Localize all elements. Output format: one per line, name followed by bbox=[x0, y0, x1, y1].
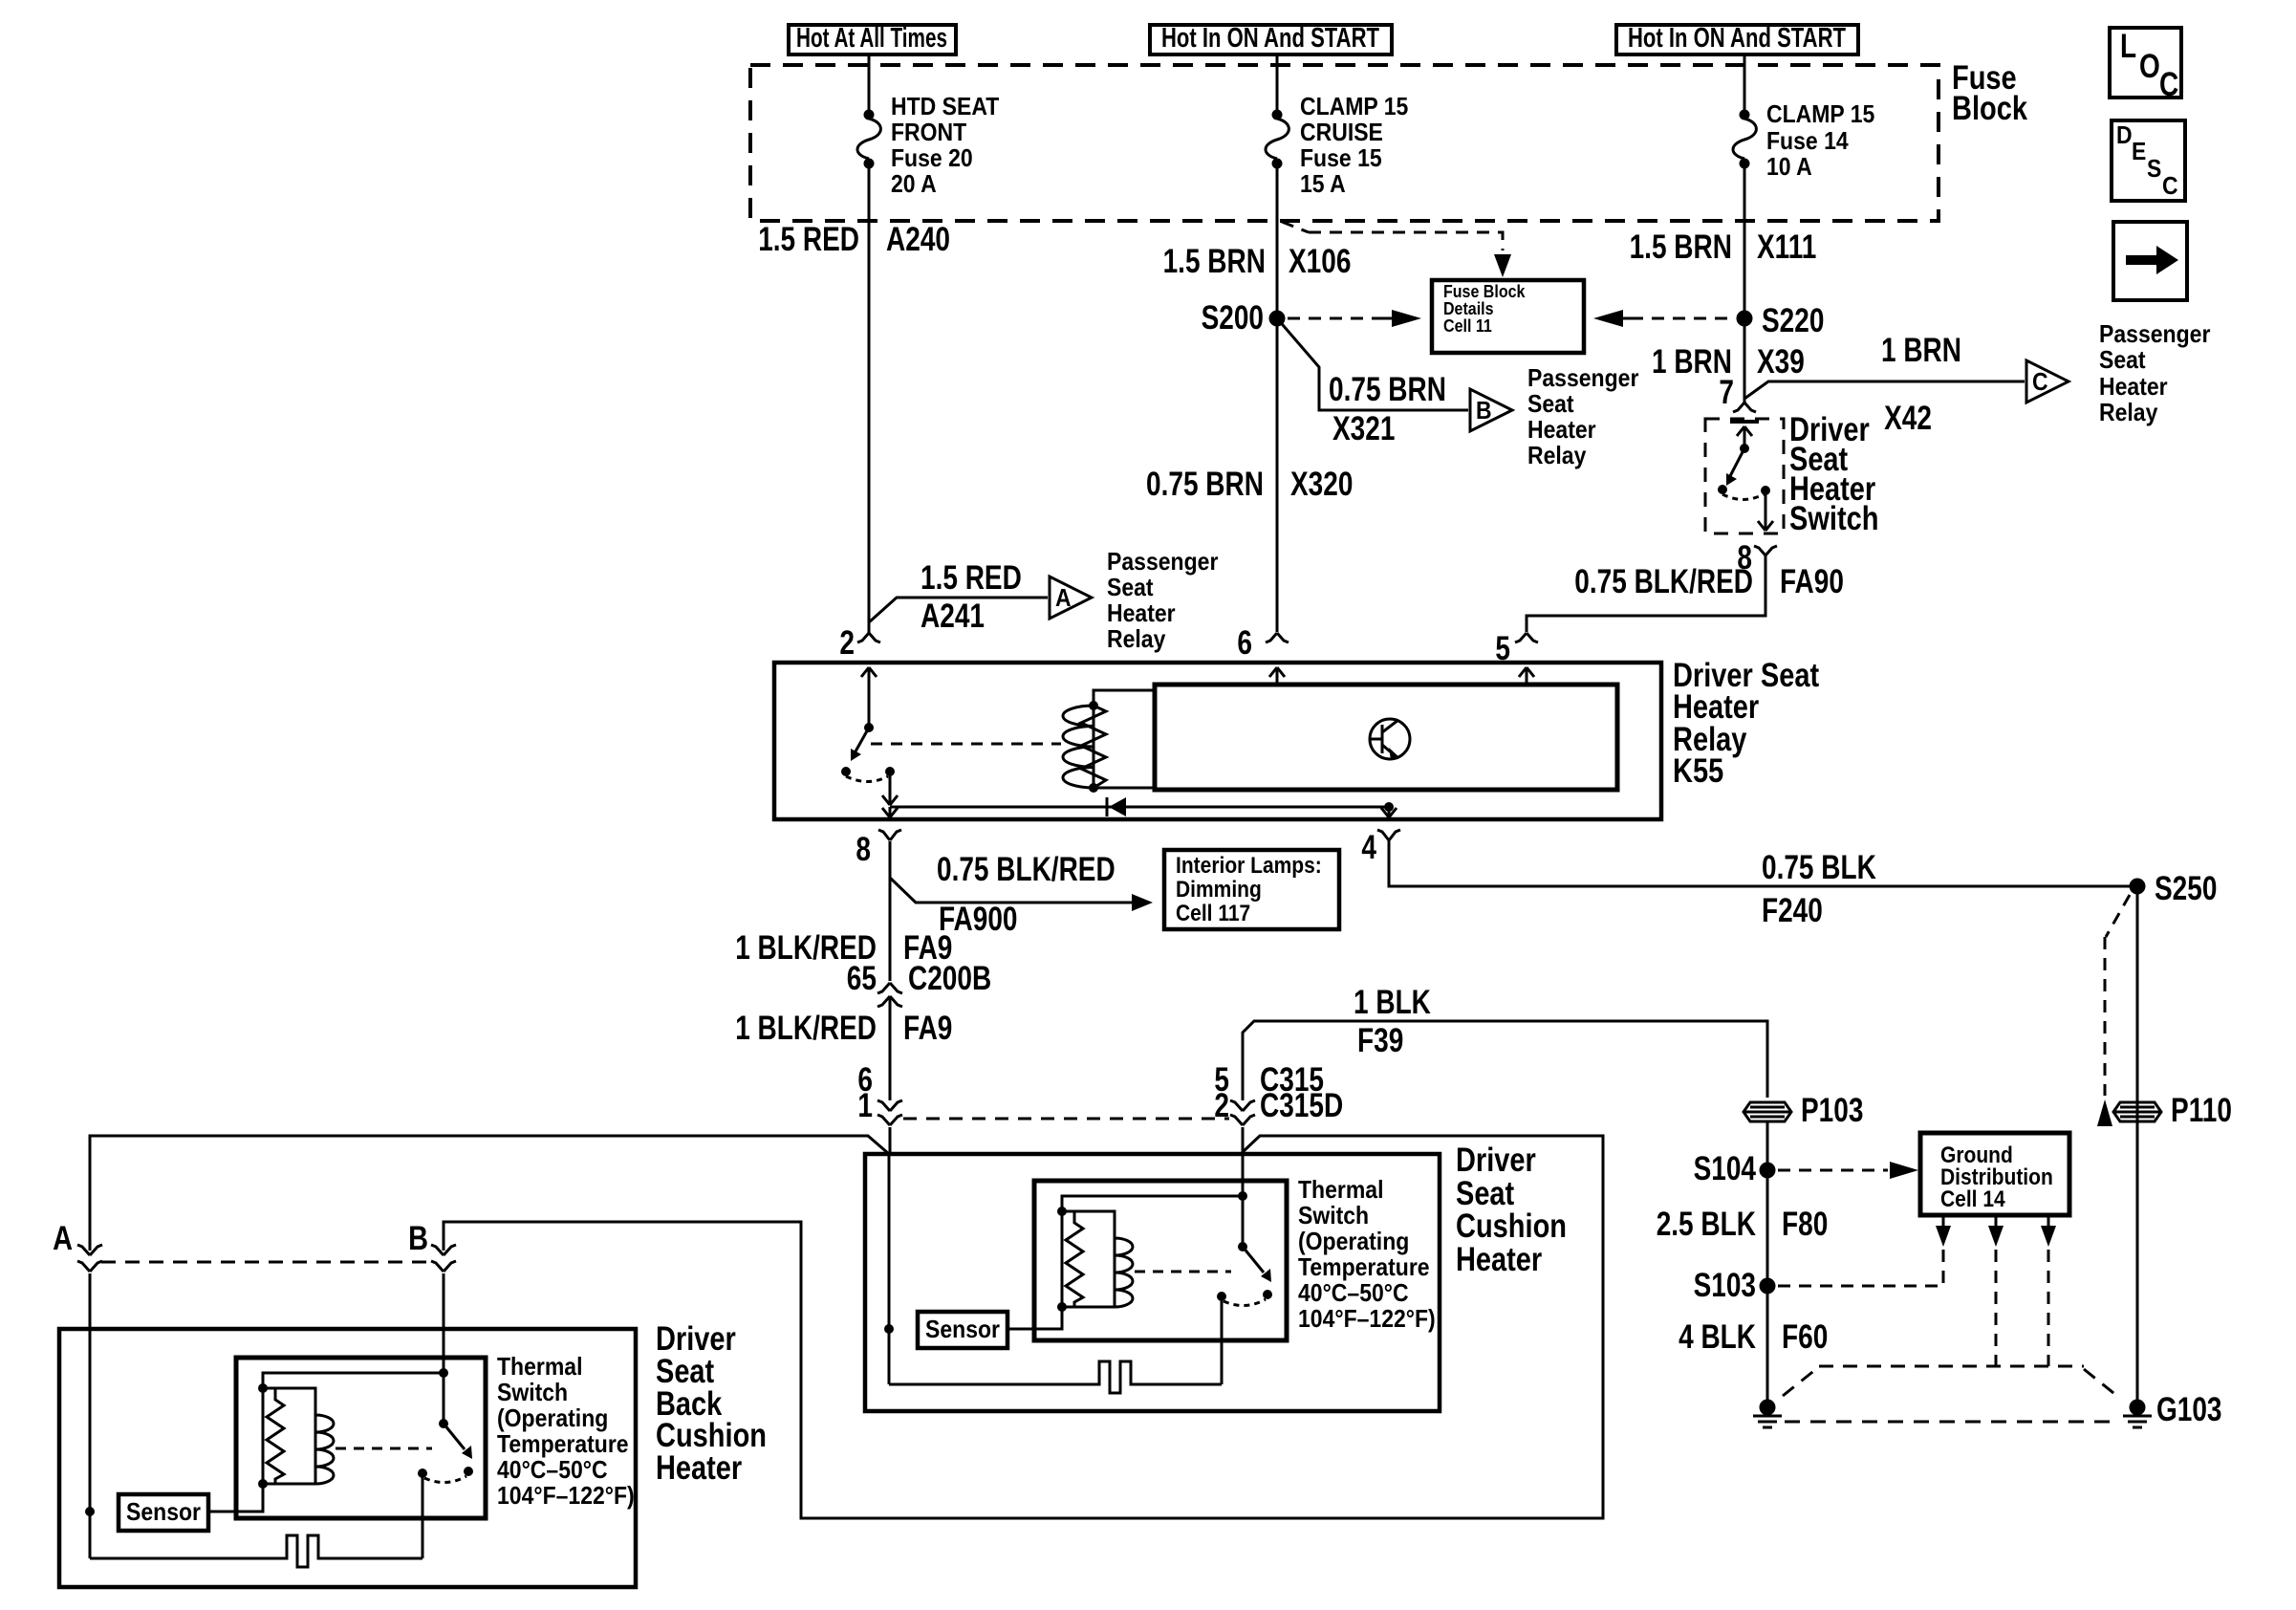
back cushion heater label bbox=[656, 1320, 767, 1487]
relay coil bbox=[1063, 701, 1098, 788]
thermal switch internals (back): top wire bbox=[263, 1373, 444, 1388]
svg-text:Sensor: Sensor bbox=[126, 1497, 201, 1526]
dashed ground bus bbox=[1783, 1366, 2118, 1397]
ground distribution box bbox=[1920, 1133, 2069, 1215]
wire FA900 branch from pin 8 bbox=[890, 878, 1137, 903]
pin 6 entry arrow inside relay bbox=[1269, 667, 1285, 685]
svg-text:X39: X39 bbox=[1757, 343, 1805, 381]
header box "Hot At All Times" bbox=[789, 23, 956, 54]
connector terminal pin 5 (Y) bbox=[1515, 633, 1538, 642]
svg-text:40°C–50°C: 40°C–50°C bbox=[1298, 1278, 1409, 1307]
svg-text:FRONT: FRONT bbox=[891, 118, 966, 146]
text passenger seat heater relay (B) bbox=[1527, 363, 1638, 469]
svg-text:1: 1 bbox=[857, 1087, 873, 1124]
text passenger seat heater relay (C) bbox=[2099, 319, 2210, 426]
wire from A into back cushion heater bbox=[89, 1273, 92, 1512]
left rail (back) bbox=[262, 1388, 265, 1484]
svg-text:Heater: Heater bbox=[1527, 415, 1596, 444]
dashed drops from ground distribution arrows bbox=[1995, 1250, 1998, 1366]
interior lamps dimming box bbox=[1164, 850, 1339, 929]
node S200 bbox=[1202, 299, 1286, 337]
connector C315 left (double chevron down) bbox=[877, 1100, 902, 1125]
svg-text:Cell 14: Cell 14 bbox=[1940, 1186, 2005, 1212]
svg-text:0.75 BLK/RED: 0.75 BLK/RED bbox=[1574, 563, 1753, 600]
svg-text:F60: F60 bbox=[1782, 1318, 1828, 1356]
svg-text:Sensor: Sensor bbox=[925, 1315, 1000, 1343]
switch throw dashed arc (cushion) bbox=[1224, 1299, 1266, 1306]
svg-text:1 BLK: 1 BLK bbox=[1354, 984, 1431, 1021]
svg-text:A: A bbox=[53, 1220, 73, 1257]
dashed arrow S104 to ground distribution bbox=[1778, 1162, 1918, 1179]
svg-text:10 A: 10 A bbox=[1766, 152, 1812, 181]
svg-text:Heater: Heater bbox=[2099, 372, 2168, 401]
svg-text:(Operating: (Operating bbox=[1298, 1227, 1409, 1255]
svg-text:Fuse 20: Fuse 20 bbox=[891, 143, 973, 172]
svg-text:C: C bbox=[2162, 171, 2178, 200]
svg-text:Hot At All Times: Hot At All Times bbox=[796, 23, 947, 54]
pin 8 exit arrow inside relay bbox=[882, 807, 898, 817]
svg-text:B: B bbox=[408, 1220, 428, 1257]
fuse block dashed box bbox=[750, 65, 1939, 221]
svg-text:A241: A241 bbox=[921, 598, 985, 635]
coil branch (back) bbox=[263, 1388, 334, 1484]
svg-text:104°F–122°F): 104°F–122°F) bbox=[497, 1481, 635, 1510]
dashed link A to B bbox=[101, 1261, 430, 1264]
svg-text:X111: X111 bbox=[1757, 228, 1816, 266]
bottom junction dot (back) bbox=[258, 1479, 268, 1489]
switch contact bar pin 7 bbox=[1730, 420, 1759, 424]
svg-text:Heater: Heater bbox=[1456, 1241, 1543, 1278]
text passenger seat heater relay (A) bbox=[1107, 547, 1218, 653]
switch fixed contact dot (back) bbox=[418, 1469, 427, 1478]
svg-text:X106: X106 bbox=[1289, 243, 1351, 280]
svg-text:S250: S250 bbox=[2155, 870, 2217, 907]
wire X39 from S220 down to switch bbox=[1744, 318, 1746, 395]
wire F240 from pin 4 to S250 bbox=[1389, 840, 2137, 886]
switch output arrow down bbox=[1758, 490, 1773, 531]
svg-text:0.75 BRN: 0.75 BRN bbox=[1146, 466, 1264, 503]
svg-text:FA9: FA9 bbox=[903, 1010, 952, 1047]
switch fixed contact dot (cushion) bbox=[1217, 1292, 1226, 1301]
svg-text:1 BLK/RED: 1 BLK/RED bbox=[735, 1010, 877, 1047]
svg-text:Relay: Relay bbox=[2099, 398, 2158, 426]
svg-text:C315D: C315D bbox=[1260, 1087, 1343, 1124]
switch arm (back) bbox=[444, 1424, 472, 1459]
svg-text:HTD SEAT: HTD SEAT bbox=[891, 92, 999, 120]
svg-text:Thermal: Thermal bbox=[1298, 1175, 1384, 1204]
wire from S250 down to G103 bbox=[2136, 886, 2139, 1407]
svg-text:Thermal: Thermal bbox=[497, 1352, 583, 1381]
svg-text:2: 2 bbox=[839, 624, 855, 662]
header box "Hot In ON And START" (left) bbox=[1150, 23, 1392, 54]
relay internal bus wire bbox=[890, 806, 1389, 809]
svg-text:Relay: Relay bbox=[1107, 624, 1166, 653]
connector C200B (double chevron up) bbox=[877, 983, 902, 1007]
svg-text:Passenger: Passenger bbox=[1527, 363, 1638, 392]
svg-text:Fuse Block: Fuse Block bbox=[1443, 282, 1526, 301]
wire X106 from fuse to S200 bbox=[1276, 163, 1279, 318]
diode symbol on bus bbox=[1107, 797, 1126, 816]
svg-text:Cushion: Cushion bbox=[1456, 1207, 1567, 1245]
header box "Hot In ON And START" (right) bbox=[1616, 23, 1858, 54]
switch top contact dot (cushion) bbox=[1238, 1191, 1247, 1201]
driver seat back cushion heater box bbox=[59, 1329, 636, 1587]
triangle connector A bbox=[1050, 577, 1092, 619]
node S250 bbox=[2130, 870, 2218, 907]
wire left side down (back) bbox=[89, 1512, 92, 1558]
svg-text:Seat: Seat bbox=[1107, 573, 1154, 601]
svg-text:Interior Lamps:: Interior Lamps: bbox=[1176, 853, 1322, 879]
wire X106 from Hot In ON And START to fuse 15 bbox=[1276, 54, 1279, 110]
wire A240 from Hot At All Times to fuse 20 bbox=[868, 54, 871, 110]
relay switch to coil dashed link bbox=[871, 743, 1061, 746]
node S103 bbox=[1694, 1267, 1776, 1304]
svg-text:Details: Details bbox=[1443, 299, 1494, 318]
connector terminal pin 8 (Y) bbox=[878, 830, 901, 840]
switch arm (cushion) bbox=[1243, 1247, 1271, 1282]
wire X42 branch to C bbox=[1744, 381, 2025, 399]
svg-text:CLAMP 15: CLAMP 15 bbox=[1766, 99, 1874, 128]
driver seat cushion heater label bbox=[1456, 1142, 1567, 1278]
svg-text:S200: S200 bbox=[1202, 299, 1264, 337]
svg-text:Heater: Heater bbox=[1107, 598, 1176, 627]
wire from B into back cushion heater bbox=[443, 1273, 445, 1373]
relay switch dashed arc bbox=[846, 776, 888, 782]
pass-through grommet P110 bbox=[2113, 1092, 2232, 1129]
pass-through grommet P103 bbox=[1744, 1092, 1863, 1129]
svg-text:D: D bbox=[2116, 120, 2133, 149]
wire FA90 from switch to relay pin 5 bbox=[1527, 555, 1765, 632]
connector terminal pin 4 (Y) bbox=[1377, 830, 1400, 840]
arrow corner box bbox=[2113, 222, 2187, 300]
node G103 ground bbox=[2123, 1391, 2222, 1428]
svg-text:G103: G103 bbox=[2156, 1391, 2222, 1428]
sensor to thermal switch wire (back) bbox=[208, 1484, 263, 1512]
svg-text:15 A: 15 A bbox=[1300, 169, 1346, 198]
ground at F60 bbox=[1753, 1400, 1782, 1428]
svg-text:1.5 RED: 1.5 RED bbox=[758, 221, 859, 258]
wire from fixed contact down (back) bbox=[422, 1473, 424, 1558]
link coil top to module bbox=[1094, 690, 1155, 706]
svg-text:F240: F240 bbox=[1762, 892, 1823, 929]
svg-text:Passenger: Passenger bbox=[1107, 547, 1218, 576]
wire F80/F60 bbox=[1766, 1170, 1769, 1407]
relay resistor zigzag bbox=[1081, 706, 1106, 788]
wire F80 from P103 to S104 bbox=[1766, 1121, 1769, 1170]
svg-text:0.75 BLK/RED: 0.75 BLK/RED bbox=[937, 851, 1116, 888]
wire to A (branch from cushion heater feed) bbox=[90, 1136, 889, 1251]
svg-text:Driver: Driver bbox=[1456, 1142, 1536, 1179]
svg-text:20 A: 20 A bbox=[891, 169, 937, 198]
wire left side down (cushion) bbox=[888, 1154, 891, 1384]
driver seat heater switch dashed box bbox=[1705, 419, 1784, 533]
wire A240 below fuse block bbox=[868, 163, 871, 622]
svg-text:E: E bbox=[2132, 137, 2146, 165]
bus junction dot at pin 4 bbox=[1384, 802, 1394, 812]
svg-text:Seat: Seat bbox=[2099, 345, 2146, 374]
pin 2 entry arrow inside relay bbox=[861, 667, 877, 728]
connector terminal pin 7 (Y) bbox=[1733, 395, 1756, 412]
switch pivot dot (back) bbox=[439, 1419, 448, 1428]
svg-text:2.5 BLK: 2.5 BLK bbox=[1657, 1206, 1756, 1243]
fuse 20 symbol bbox=[857, 110, 880, 169]
sensor feed dot (cushion) bbox=[884, 1324, 894, 1334]
svg-text:S220: S220 bbox=[1762, 302, 1824, 339]
svg-text:F39: F39 bbox=[1357, 1022, 1403, 1059]
svg-text:CLAMP 15: CLAMP 15 bbox=[1300, 92, 1408, 120]
svg-text:C: C bbox=[2032, 367, 2048, 396]
svg-text:1.5 BRN: 1.5 BRN bbox=[1630, 228, 1732, 266]
sensor box (back) bbox=[119, 1494, 208, 1531]
driver seat cushion heater box bbox=[865, 1154, 1440, 1411]
pin 5 entry arrow inside relay bbox=[1519, 667, 1534, 685]
wire F39 from C315D up and right to P103 bbox=[1243, 1021, 1767, 1100]
heater element (back) bbox=[90, 1535, 422, 1567]
wire FA9 continues bbox=[889, 997, 892, 1100]
svg-text:Switch: Switch bbox=[497, 1378, 568, 1406]
svg-text:7: 7 bbox=[1719, 374, 1734, 411]
branch wire A241 bbox=[869, 598, 1048, 622]
wire X320 from S200 to relay pin 6 bbox=[1276, 318, 1279, 632]
svg-text:X42: X42 bbox=[1884, 400, 1932, 437]
connector terminal pin 6 (Y) bbox=[1266, 633, 1289, 642]
wire from contact down to internal bus bbox=[882, 772, 898, 805]
svg-text:Fuse 14: Fuse 14 bbox=[1766, 126, 1849, 155]
wire FA9 from pin 8 down bbox=[889, 841, 892, 981]
svg-text:1 BRN: 1 BRN bbox=[1881, 332, 1961, 369]
switch throw dashed arc (back) bbox=[424, 1476, 466, 1483]
dashed link S250 to ground distribution bbox=[2105, 895, 2130, 1096]
svg-text:L: L bbox=[2120, 28, 2136, 65]
svg-text:F80: F80 bbox=[1782, 1206, 1828, 1243]
ground distribution exit arrows bbox=[1936, 1215, 2056, 1247]
switch arm end dot (back) bbox=[464, 1467, 473, 1476]
triangle connector C bbox=[2026, 360, 2069, 402]
top junction dot bbox=[1057, 1207, 1067, 1216]
svg-text:X320: X320 bbox=[1290, 466, 1353, 503]
svg-text:Dimming: Dimming bbox=[1176, 877, 1262, 903]
Fuse Block Details box bbox=[1432, 280, 1584, 353]
dashed arrow S200 to Fuse Block Details bbox=[1288, 310, 1421, 327]
dashed link coil to switch arm (back) bbox=[336, 1447, 432, 1450]
coil branch (cushion) bbox=[1062, 1211, 1133, 1307]
svg-text:1.5 BRN: 1.5 BRN bbox=[1163, 243, 1266, 280]
svg-text:5: 5 bbox=[1495, 630, 1510, 667]
switch pivot dot (cushion) bbox=[1238, 1242, 1247, 1251]
svg-text:S103: S103 bbox=[1694, 1267, 1756, 1304]
triangle connector B bbox=[1470, 389, 1512, 431]
svg-text:6: 6 bbox=[1237, 624, 1252, 662]
svg-text:P103: P103 bbox=[1801, 1092, 1863, 1129]
connector A (double chevron down) bbox=[77, 1245, 102, 1272]
arrow up on dashed link bbox=[2097, 1099, 2112, 1126]
bottom rail link bbox=[1062, 1306, 1115, 1309]
svg-text:S104: S104 bbox=[1694, 1150, 1757, 1187]
bottom rail link (back) bbox=[263, 1483, 315, 1486]
thermal switch text (back) bbox=[497, 1352, 635, 1510]
relay switch common dot bbox=[864, 723, 874, 732]
svg-text:X321: X321 bbox=[1332, 410, 1395, 447]
svg-text:S: S bbox=[2147, 154, 2161, 183]
dashed ground link bar bbox=[1785, 1421, 2120, 1424]
resistor zigzag (back) bbox=[267, 1388, 284, 1484]
fuse 20 text bbox=[891, 92, 999, 198]
wire into cushion heater box left bbox=[889, 1127, 892, 1154]
svg-text:Fuse 15: Fuse 15 bbox=[1300, 143, 1382, 172]
wire X111 from fuse to S220 bbox=[1744, 163, 1746, 318]
sensor box (cushion) bbox=[918, 1312, 1007, 1348]
svg-text:O: O bbox=[2139, 48, 2160, 85]
svg-text:P110: P110 bbox=[2171, 1092, 2232, 1129]
svg-text:Cell 11: Cell 11 bbox=[1443, 316, 1492, 336]
svg-text:40°C–50°C: 40°C–50°C bbox=[497, 1455, 608, 1484]
node S104 bbox=[1694, 1150, 1776, 1187]
svg-text:C: C bbox=[2159, 66, 2178, 103]
link coil bottom to module bbox=[1094, 787, 1155, 790]
relay outer box K55 bbox=[774, 663, 1661, 819]
svg-text:(Operating: (Operating bbox=[497, 1403, 608, 1432]
thermal switch text (cushion) bbox=[1298, 1175, 1436, 1333]
svg-text:Hot In ON And START: Hot In ON And START bbox=[1628, 23, 1846, 54]
svg-text:65: 65 bbox=[847, 960, 877, 997]
svg-text:A240: A240 bbox=[886, 221, 950, 258]
thermal switch internals (cushion): top wire bbox=[1062, 1196, 1243, 1211]
fuse 15 text bbox=[1300, 92, 1408, 198]
svg-text:Cell 117: Cell 117 bbox=[1176, 901, 1250, 926]
resistor zigzag (cushion) bbox=[1066, 1211, 1083, 1307]
svg-text:4: 4 bbox=[1361, 829, 1376, 866]
svg-text:K55: K55 bbox=[1673, 752, 1723, 790]
switch feed wire (back) bbox=[443, 1373, 445, 1424]
pin 4 exit arrow inside relay bbox=[1381, 807, 1397, 817]
svg-text:104°F–122°F): 104°F–122°F) bbox=[1298, 1304, 1436, 1333]
svg-text:Hot In ON And START: Hot In ON And START bbox=[1161, 23, 1379, 54]
svg-text:FA90: FA90 bbox=[1780, 563, 1844, 600]
wire from C315D down into cushion heater box bbox=[1242, 1127, 1245, 1196]
LOC corner box bbox=[2110, 28, 2181, 103]
connector B (double chevron down) bbox=[431, 1245, 456, 1272]
sensor feed dot (back) bbox=[85, 1507, 95, 1516]
wire B loop from cushion heater to B bbox=[444, 1136, 1603, 1518]
svg-text:C200B: C200B bbox=[908, 960, 991, 997]
svg-text:8: 8 bbox=[856, 831, 871, 868]
relay switch contact dots bbox=[841, 767, 851, 776]
fuse 14 symbol bbox=[1733, 110, 1756, 169]
svg-text:Seat: Seat bbox=[1527, 389, 1574, 418]
fuse 15 symbol bbox=[1266, 110, 1289, 169]
top junction dot (back) bbox=[258, 1383, 268, 1393]
relay coil bottom junction dot bbox=[1089, 783, 1098, 793]
bottom junction dot bbox=[1057, 1302, 1067, 1312]
relay label text bbox=[1673, 657, 1819, 790]
left rail bbox=[1061, 1211, 1064, 1307]
sensor to thermal switch wire (cushion) bbox=[1007, 1307, 1062, 1329]
switch common dot bbox=[1740, 444, 1749, 453]
connector terminal pin 8 of switch (Y) bbox=[1754, 546, 1777, 555]
transistor symbol in module bbox=[1370, 719, 1410, 760]
relay switch arm bbox=[851, 728, 869, 761]
svg-text:B: B bbox=[1476, 396, 1492, 424]
connector terminal pin 2 (Y) bbox=[857, 622, 880, 642]
svg-text:Temperature: Temperature bbox=[497, 1429, 629, 1458]
dashed link coil to switch arm (cushion) bbox=[1135, 1271, 1231, 1273]
svg-text:A: A bbox=[1055, 583, 1072, 612]
branch wire X321 from S200 bbox=[1277, 318, 1468, 410]
svg-text:0.75 BRN: 0.75 BRN bbox=[1329, 371, 1446, 408]
svg-text:Passenger: Passenger bbox=[2099, 319, 2210, 348]
switch top contact dot (back) bbox=[439, 1368, 448, 1378]
switch throw dashed arc bbox=[1722, 494, 1764, 500]
svg-text:1.5 RED: 1.5 RED bbox=[921, 559, 1022, 597]
svg-text:Switch: Switch bbox=[1298, 1201, 1369, 1229]
switch text bbox=[1789, 411, 1879, 537]
switch feed wire (cushion) bbox=[1242, 1196, 1245, 1247]
svg-text:2: 2 bbox=[1214, 1087, 1229, 1124]
svg-text:Heater: Heater bbox=[656, 1449, 743, 1487]
arrowhead into interior lamps box bbox=[1132, 894, 1153, 911]
node S220 bbox=[1737, 302, 1825, 339]
connector C315D right (double chevron down) bbox=[1230, 1100, 1255, 1125]
wire from fixed contact down (cushion) bbox=[1221, 1296, 1224, 1384]
dashed hook from X106 to Fuse Block Details bbox=[1282, 222, 1511, 277]
svg-text:CRUISE: CRUISE bbox=[1300, 118, 1383, 146]
relay inner module box bbox=[1155, 685, 1617, 790]
dashed link between C315 connectors bbox=[903, 1118, 1229, 1120]
dashed link S103 to ground distribution arrow bbox=[1778, 1250, 1943, 1286]
thermal switch box (back) bbox=[236, 1358, 486, 1518]
fuse 14 text bbox=[1766, 99, 1874, 181]
switch contact dots bbox=[1718, 485, 1727, 494]
wire X111 from Hot In ON And START to fuse 14 bbox=[1744, 54, 1746, 110]
svg-text:Relay: Relay bbox=[1527, 441, 1587, 469]
switch arm bbox=[1726, 448, 1744, 486]
svg-text:4 BLK: 4 BLK bbox=[1679, 1318, 1756, 1356]
dashed arrow S220 to Fuse Block Details bbox=[1593, 310, 1734, 327]
svg-text:Block: Block bbox=[1952, 90, 2027, 127]
svg-text:0.75 BLK: 0.75 BLK bbox=[1762, 849, 1876, 886]
thermal switch box (cushion) bbox=[1034, 1181, 1287, 1340]
DESC corner box bbox=[2112, 120, 2185, 201]
switch arm end dot (cushion) bbox=[1263, 1290, 1272, 1299]
switch arrow up to bar bbox=[1737, 426, 1752, 448]
heater element (cushion) bbox=[889, 1361, 1222, 1393]
svg-text:Switch: Switch bbox=[1789, 500, 1879, 537]
svg-text:Temperature: Temperature bbox=[1298, 1252, 1430, 1281]
